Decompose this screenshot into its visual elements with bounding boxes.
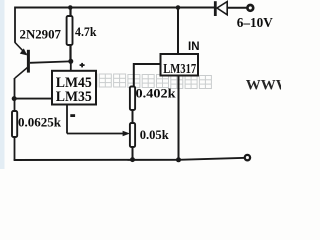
svg-text:LM317: LM317	[163, 62, 196, 77]
resistor R3 0.402k	[130, 87, 135, 111]
svg-text:WWW: WWW	[246, 78, 281, 94]
wire U1 left pin to ground rail	[15, 98, 53, 100]
resistor R4 0.05k	[130, 123, 135, 147]
watermark gray company characters row	[85, 74, 211, 89]
node bottom rail / LM317 out	[176, 157, 181, 162]
terminal input	[247, 5, 253, 11]
svg-text:0.0625k: 0.0625k	[18, 115, 62, 130]
left scan band	[0, 0, 5, 169]
wire diode to input terminal	[227, 7, 247, 9]
wire U1 minus pin down and right with arrow	[67, 105, 124, 134]
wire U1 plus pin	[70, 61, 72, 71]
resistor R2 0.0625k	[12, 111, 17, 137]
wire R4 to bottom rail	[132, 147, 134, 160]
label +	[80, 63, 85, 68]
svg-text:0.402k: 0.402k	[136, 86, 177, 101]
node base / R1 / U1 plus	[68, 59, 73, 64]
node left rail / U1	[12, 96, 17, 101]
node top rail / R1	[68, 5, 73, 10]
wire LM317 left pin to divider	[134, 64, 161, 87]
terminal output	[245, 155, 250, 160]
diode D1	[215, 1, 227, 16]
svg-text:6–10V: 6–10V	[237, 15, 273, 30]
wire base to node	[30, 61, 70, 62]
svg-text:4.7k: 4.7k	[75, 24, 97, 39]
node bottom rail / R4	[130, 157, 135, 162]
resistor R1 4.7k	[67, 8, 73, 62]
node top rail / LM317	[176, 5, 181, 10]
wire left rail upper	[14, 7, 16, 43]
wire R3 to R4	[132, 110, 134, 123]
sensor U1 LM45/LM35	[52, 71, 96, 105]
regulator U2 LM317	[161, 54, 199, 76]
svg-text:0.05k: 0.05k	[140, 127, 170, 142]
wire LM317 input from top rail	[177, 8, 179, 55]
wire top rail	[15, 7, 216, 9]
transistor Q1 2N2907	[15, 43, 29, 79]
wire left rail lower	[14, 78, 16, 160]
wire bottom rail	[14, 158, 246, 160]
wire LM317 output to bottom rail	[178, 76, 180, 160]
svg-text:IN: IN	[188, 41, 200, 53]
svg-text:LM35: LM35	[56, 89, 92, 105]
label minus	[70, 114, 75, 117]
paper background	[0, 0, 281, 169]
svg-text:2N2907: 2N2907	[20, 26, 62, 41]
